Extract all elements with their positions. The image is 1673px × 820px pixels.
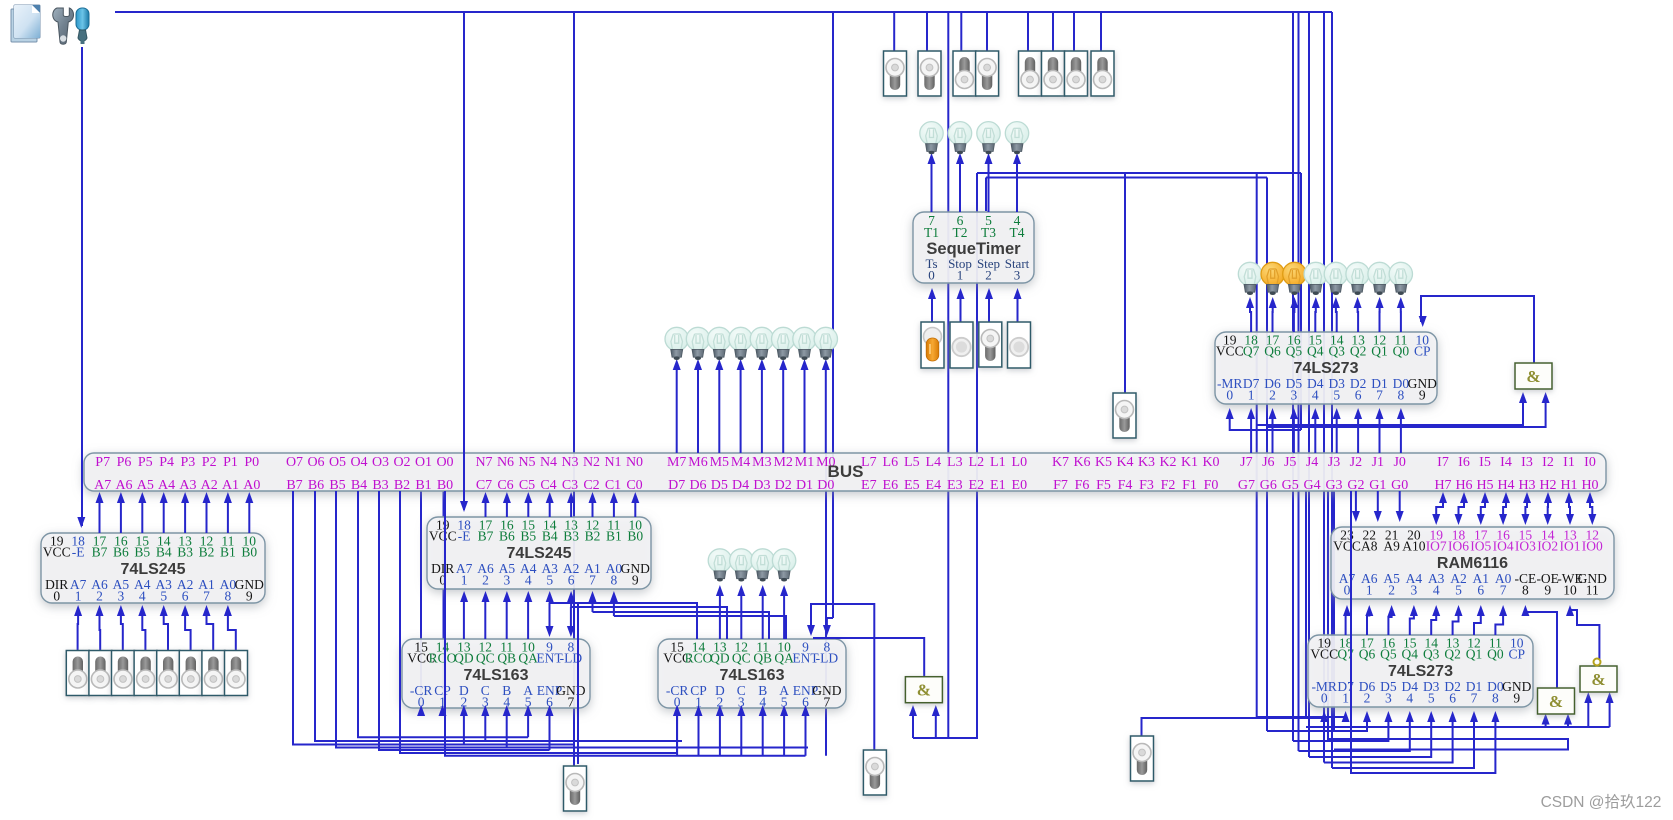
svg-text:Q2: Q2 [1444,647,1461,662]
wire: control switch to SequeTimer pin 3 [1017,295,1019,322]
wire: BUS H1 bidirectional to RAM IO1 [1569,500,1570,518]
svg-text:L6: L6 [883,455,899,470]
svg-text:B7: B7 [478,529,494,544]
bulb C2 (74LS273-1 Q6) lit [1261,262,1284,295]
wire: bottom trunk to 74LS163-2 inputs [445,491,806,756]
wire: top trunk drop to switch SW14 [1052,12,1054,51]
svg-text:RAM6116: RAM6116 [1437,555,1508,572]
svg-text:QD: QD [454,651,474,666]
svg-text:A7: A7 [94,478,111,493]
svg-text:D5: D5 [711,478,728,493]
and-gate G4 clock marker [1594,659,1601,666]
switch T-Ts (orange, on) [921,322,944,368]
svg-text:4: 4 [1406,691,1413,706]
svg-text:B1: B1 [606,529,622,544]
svg-text:O1: O1 [415,455,432,470]
svg-text:K7: K7 [1052,455,1069,470]
svg-text:1: 1 [957,268,964,283]
switch SW16 (up) [1091,51,1114,96]
chip U8 (RAM6116) [1331,527,1614,599]
wire: switch SW7 to 74LS245-1 A1 [207,612,214,650]
svg-text:1: 1 [461,573,468,588]
svg-text:0: 0 [1321,691,1328,706]
svg-text:6: 6 [568,573,575,588]
switch SW8 (data input bit 0) [225,651,248,696]
switch SW11 (up) [953,51,976,96]
svg-text:8: 8 [1522,583,1529,598]
svg-text:Q4: Q4 [1402,647,1419,662]
switch SW5 (data input bit 3) [157,651,180,696]
wire: 74LS273-2 Q3 up into RAM A3 [1431,612,1436,635]
switch SW7 (data input bit 1) [202,651,225,696]
wire: trunk into 74LS273-2 D4 [1293,718,1388,741]
wire: 74LS273-1 Q7 to bulb [1250,304,1251,332]
wire: stub up into 74LS163-2 pin 4 [762,712,764,756]
bulb A1 (SequeTimer T1) [920,122,943,155]
wire: BUS B3 down to counter input [379,491,550,750]
wire: trunk into 74LS273-2 D5 [1267,718,1367,731]
svg-text:E1: E1 [990,478,1006,493]
wire: 74LS273-1 Q5 to bulb [1293,304,1296,332]
svg-text:A6: A6 [115,478,132,493]
svg-text:8: 8 [1398,388,1405,403]
svg-text:C1: C1 [605,478,621,493]
svg-text:QB: QB [497,651,516,666]
svg-text:B6: B6 [499,529,515,544]
svg-text:L1: L1 [990,455,1006,470]
svg-text:J1: J1 [1372,455,1384,470]
svg-text:74LS163: 74LS163 [720,667,785,684]
svg-text:B2: B2 [585,529,601,544]
svg-text:Q6: Q6 [1264,344,1281,359]
svg-text:B2: B2 [394,478,410,493]
svg-text:VCC: VCC [1333,539,1361,554]
switch SW6 (data input bit 2) [179,651,202,696]
bulb C3 (74LS273-1 Q5) lit [1283,262,1306,295]
wire: SequeTimer T4 to bulb [1016,160,1018,212]
svg-text:IO7: IO7 [1426,539,1447,554]
wire: 74LS245-2 B7 to BUS C7 [485,500,487,517]
svg-text:M1: M1 [795,455,814,470]
wire: BUS G0 down and into 74LS273-2 D0 [1351,491,1495,773]
wire: switch SW3 to 74LS245-1 A5 [121,612,123,650]
svg-text:Q1: Q1 [1466,647,1483,662]
svg-text:C0: C0 [626,478,642,493]
switch SW13 (up) [1019,51,1042,96]
svg-text:B7: B7 [92,545,108,560]
bulb B1 (BUS M7) [665,327,688,360]
svg-text:0: 0 [1344,583,1351,598]
wire: long vertical bundle line 6 from top trunk (x1324) [1323,12,1325,763]
wire: switch SW2 to 74LS245-1 A6 [99,612,102,650]
wire: 74LS163-2 QB to bulb [762,592,764,639]
svg-text:5: 5 [1455,583,1462,598]
svg-text:B3: B3 [563,529,579,544]
bulb D3 (74LS163-2 QB) [751,549,774,582]
svg-text:B3: B3 [372,478,388,493]
wire: 74LS273-1 Q0 to bulb [1400,304,1402,332]
wire: data net to 74LS245-2 A2 with horizontal run [570,598,572,607]
svg-text:Q3: Q3 [1423,647,1440,662]
wire: BUS H3 bidirectional to RAM IO3 [1525,500,1527,518]
svg-text:H1: H1 [1560,478,1577,493]
wire: top trunk drop to switch SW15 [1073,12,1075,51]
wire: 74LS273-2 Q5 up into RAM A5 [1388,612,1391,635]
svg-text:Q7: Q7 [1243,344,1260,359]
wire: BUS J3 up into 74LS273-1 D3 [1336,415,1338,453]
svg-text:I1: I1 [1563,455,1575,470]
svg-text:5: 5 [546,573,553,588]
wire: net into 74LS273-1 -MR [1230,415,1301,430]
wire: and-gate G3 output to RAM -CE [1525,610,1557,688]
svg-text:Q3: Q3 [1328,344,1345,359]
wire: 74LS245-1 B6 to BUS A6 [120,500,122,533]
svg-text:3: 3 [504,573,511,588]
svg-text:D3: D3 [753,478,770,493]
svg-text:N4: N4 [540,455,557,470]
svg-text:M5: M5 [710,455,729,470]
wire: 74LS273-1 Q6 to bulb [1272,304,1274,332]
wire: switch SW4 to 74LS245-1 A4 [142,612,145,650]
svg-text:O6: O6 [307,455,324,470]
svg-text:M2: M2 [773,455,792,470]
wire: 74LS163-1 QD to 74LS245-2 A7 [463,598,465,639]
svg-text:C4: C4 [540,478,556,493]
switch P1 (probe) [1113,393,1136,438]
wire: vertical net through BUS down to 74LS163-2 -LD (x833) [832,12,834,618]
wire: BUS H7 bidirectional to RAM IO7 [1436,500,1443,518]
wire: 74LS163-2 QC to bulb [740,592,742,639]
bulb B7 (BUS M1) [793,327,816,360]
svg-text:8: 8 [225,589,232,604]
svg-text:O0: O0 [436,455,453,470]
svg-text:Q6: Q6 [1359,647,1376,662]
svg-text:9: 9 [246,589,253,604]
svg-text:2: 2 [482,573,489,588]
svg-text:9: 9 [1419,388,1426,403]
svg-text:K0: K0 [1202,455,1219,470]
svg-text:A5: A5 [137,478,154,493]
svg-text:8: 8 [1492,691,1499,706]
wire: 74LS273-1 Q4 to bulb [1314,304,1317,332]
wire: and-gate G2 output to the left [813,638,924,677]
svg-text:J7: J7 [1240,455,1252,470]
wire: control switch to SequeTimer pin 1 [960,295,962,322]
svg-text:J0: J0 [1393,455,1405,470]
svg-text:4: 4 [525,573,532,588]
switch P2 (clock source) [564,766,587,811]
wire: top trunk drop to switch SW9 [893,12,895,51]
svg-text:B4: B4 [156,545,172,560]
wire: BUS H6 bidirectional to RAM IO6 [1459,500,1465,518]
svg-text:E2: E2 [969,478,985,493]
svg-text:Q0: Q0 [1393,344,1410,359]
svg-text:I7: I7 [1437,455,1449,470]
wire: control switch to SequeTimer pin 0 [931,295,933,322]
svg-text:E6: E6 [883,478,899,493]
svg-text:D1: D1 [796,478,813,493]
bulb A2 (SequeTimer T2) [948,122,971,155]
svg-text:K5: K5 [1095,455,1112,470]
svg-text:C5: C5 [519,478,535,493]
svg-text:C7: C7 [476,478,492,493]
bulb B4 (BUS M4) [729,327,752,360]
svg-text:P1: P1 [223,455,238,470]
switch T-Stop (button) [950,322,973,368]
svg-text:L2: L2 [969,455,985,470]
svg-text:0: 0 [928,268,935,283]
svg-text:K4: K4 [1116,455,1133,470]
svg-text:G1: G1 [1369,478,1386,493]
svg-text:N5: N5 [518,455,535,470]
wire: BUS G down into RAM A9 [1377,491,1379,517]
wire: BUS M0 to indicator bulb [825,366,827,453]
svg-text:7: 7 [203,589,210,604]
and-gate G3 [1538,688,1575,714]
svg-text:I0: I0 [1584,455,1596,470]
wire: 74LS245-1 B7 to BUS A7 [99,500,101,533]
svg-text:P7: P7 [95,455,110,470]
bulb B6 (BUS M2) [772,327,795,360]
svg-text:9: 9 [1544,583,1551,598]
switch T-Start (button) [1008,322,1031,368]
svg-text:H6: H6 [1455,478,1472,493]
wire: jog into 74LS163-2 -LD [827,618,833,628]
svg-text:I6: I6 [1458,455,1470,470]
svg-text:1: 1 [1248,388,1255,403]
wire: 74LS245-1 B4 to BUS A4 [163,500,165,533]
wire: SequeTimer T3 to bulb [988,160,990,212]
bulb C6 (74LS273-1 Q2) [1346,262,1369,295]
svg-text:N3: N3 [561,455,578,470]
wire: BUS M2 to indicator bulb [782,366,784,453]
wire: 74LS245-2 B4 to BUS C4 [549,500,551,517]
svg-text:D6: D6 [689,478,706,493]
svg-text:I3: I3 [1521,455,1533,470]
svg-text:3: 3 [118,589,125,604]
svg-text:2: 2 [1388,583,1395,598]
svg-text:CP: CP [1414,344,1431,359]
svg-text:QD: QD [710,651,730,666]
svg-text:-E: -E [72,545,85,560]
svg-text:4: 4 [1433,583,1440,598]
svg-text:F2: F2 [1161,478,1176,493]
wire: switch SW5 to 74LS245-1 A3 [164,612,168,650]
wire: BUS M7 to indicator bulb [676,366,678,453]
svg-text:K1: K1 [1181,455,1198,470]
svg-text:QC: QC [476,651,495,666]
wire: BUS B4 down to counter input [358,491,528,737]
switch SW1 (data input bit 7) [66,651,89,696]
wire: long vertical clock net through SequeTimer and BUS (x948) [947,12,949,738]
svg-text:7: 7 [568,695,575,710]
svg-text:A4: A4 [158,478,175,493]
svg-text:1: 1 [75,589,82,604]
svg-text:I2: I2 [1542,455,1554,470]
wire: probe P3 up and left into 74LS163-2 ENT [811,604,874,750]
svg-text:74LS273: 74LS273 [1294,360,1359,377]
wire: 74LS273-2 Q6 up into RAM A6 [1367,612,1369,635]
svg-text:T3: T3 [981,225,996,240]
wire: second trunk (right mid) [977,172,1301,174]
wire: top trunk drop to switch SW10 [926,12,928,51]
svg-text:A10: A10 [1402,539,1425,554]
svg-text:VCC: VCC [1310,647,1338,662]
chip U3 (74LS163) [402,639,590,710]
svg-text:B5: B5 [134,545,150,560]
svg-text:9: 9 [632,573,639,588]
svg-text:J2: J2 [1350,455,1362,470]
svg-text:D7: D7 [668,478,685,493]
svg-text:6: 6 [182,589,189,604]
wire: BUS H0 bidirectional to RAM IO0 [1590,500,1592,518]
svg-text:3: 3 [1385,691,1392,706]
svg-text:L4: L4 [926,455,942,470]
svg-text:O3: O3 [372,455,389,470]
svg-text:G0: G0 [1391,478,1408,493]
svg-text:P6: P6 [117,455,132,470]
wire: BUS J6 up into 74LS273-1 D6 [1272,415,1274,453]
svg-text:O2: O2 [393,455,410,470]
switch SW2 (data input bit 6) [89,651,112,696]
bulb B2 (BUS M6) [686,327,709,360]
wire: 74LS273-1 Q2 to bulb [1357,304,1360,332]
svg-text:J6: J6 [1262,455,1274,470]
svg-text:IO4: IO4 [1493,539,1514,554]
switch P3 [863,750,886,795]
icon: tools toolbar button (wrench + screwdriver) [53,8,89,44]
switch SW9 (down) [884,51,907,96]
svg-text:7: 7 [1471,691,1478,706]
svg-text:-E: -E [458,529,471,544]
svg-text:C2: C2 [583,478,599,493]
wire: long vertical bundle line 1 through 74LS273-1 and BUS (x1256.7) [1256,173,1258,717]
wire: stub up into 74LS163-2 pin 6 [805,712,807,756]
svg-text:T2: T2 [953,225,968,240]
svg-text:2: 2 [1364,691,1371,706]
svg-text:T1: T1 [924,225,939,240]
svg-text:-LD: -LD [816,651,839,666]
svg-text:10: 10 [1563,583,1577,598]
svg-text:F0: F0 [1204,478,1219,493]
svg-text:N6: N6 [497,455,514,470]
wire: vertical below BUS G down through 74LS273-2 (x1334) [1333,491,1335,731]
wire: BUS H2 bidirectional to RAM IO2 [1547,500,1549,518]
svg-text:6: 6 [1477,583,1484,598]
wire: 74LS273-2 Q0 up into RAM A0 [1495,612,1503,635]
bulb C1 (74LS273-1 Q7) [1238,262,1261,295]
wire: long vertical bundle line 5 from top trunk (x1309) [1308,12,1310,757]
wire: 74LS245-2 B5 to BUS C5 [527,500,529,517]
svg-text:A3: A3 [179,478,196,493]
svg-text:D2: D2 [775,478,792,493]
and-gate G4 [1580,666,1617,692]
icon: new-document toolbar button [11,5,40,42]
wire: BUS G down into RAM A8 [1355,491,1357,517]
switch SW10 (down) [918,51,941,96]
wire: 74LS245-2 B0 to BUS C0 [634,500,636,517]
svg-text:IO3: IO3 [1515,539,1536,554]
svg-text:2: 2 [985,268,992,283]
switch SW15 (up) [1065,51,1088,96]
svg-text:G2: G2 [1347,478,1364,493]
svg-text:F6: F6 [1075,478,1090,493]
bulb D2 (74LS163-2 QC) [730,549,753,582]
svg-text:3: 3 [1291,388,1298,403]
svg-text:H7: H7 [1434,478,1451,493]
wire: arrow into 74LS163-1 CP [439,705,447,716]
svg-text:M3: M3 [752,455,771,470]
svg-text:G7: G7 [1238,478,1255,493]
svg-text:IO5: IO5 [1470,539,1491,554]
svg-text:N2: N2 [583,455,600,470]
svg-text:H2: H2 [1539,478,1556,493]
svg-text:CSDN @拾玖122: CSDN @拾玖122 [1541,793,1662,811]
svg-text:0: 0 [53,589,60,604]
svg-text:O7: O7 [286,455,303,470]
switch SW12 (down) [976,51,999,96]
svg-text:A1: A1 [222,478,239,493]
wire: 74LS245-1 B5 to BUS A5 [141,500,143,533]
svg-text:P5: P5 [138,455,153,470]
svg-text:C6: C6 [497,478,513,493]
svg-text:N0: N0 [626,455,643,470]
svg-text:L3: L3 [947,455,963,470]
svg-text:5: 5 [160,589,167,604]
svg-text:Q1: Q1 [1371,344,1388,359]
svg-text:B4: B4 [351,478,367,493]
wire: BUS G down into RAM A10 [1399,491,1401,517]
wire: 74LS273-2 Q2 up into RAM A2 [1453,612,1459,635]
svg-text:L5: L5 [904,455,920,470]
svg-text:F7: F7 [1053,478,1068,493]
svg-text:E0: E0 [1012,478,1028,493]
wire: second clock lead into switch P2 [577,604,579,764]
svg-text:6: 6 [1449,691,1456,706]
svg-text:O5: O5 [329,455,346,470]
svg-text:4: 4 [1312,388,1319,403]
svg-text:P3: P3 [181,455,196,470]
svg-text:QA: QA [518,651,538,666]
svg-text:O4: O4 [350,455,367,470]
svg-text:F4: F4 [1118,478,1133,493]
svg-text:K2: K2 [1159,455,1176,470]
svg-text:RCO: RCO [429,651,457,666]
bulb B5 (BUS M3) [750,327,773,360]
wire: probe P1 net to second trunk [1124,173,1126,393]
svg-text:74LS163: 74LS163 [464,667,529,684]
svg-text:P4: P4 [159,455,174,470]
wire: BUS B2 down to counter input [400,491,677,753]
switch T-Step (momentary) [979,322,1002,367]
wire: vertical net B1 from BUS through 74LS163-1 to pin -CR [420,491,422,712]
svg-text:F5: F5 [1096,478,1111,493]
svg-text:0: 0 [1226,388,1233,403]
svg-text:1: 1 [1342,691,1349,706]
wire: trunk into 74LS273-2 D0 [1332,718,1474,768]
bulb D1 (74LS163-2 QD) [708,549,731,582]
svg-text:5: 5 [1333,388,1340,403]
wire: long vertical bundle line 3 from top trunk (x1293) [1292,12,1294,741]
switch SW3 (data input bit 5) [112,651,135,696]
bulb C4 (74LS273-1 Q4) [1304,262,1327,295]
wire: SequeTimer T1 to bulb [931,160,933,212]
svg-text:G5: G5 [1282,478,1299,493]
svg-text:VCC: VCC [429,529,457,544]
wire: 74LS245-2 B1 to BUS C1 [613,500,615,517]
wire: BUS J1 up into 74LS273-1 D1 [1379,415,1381,453]
svg-text:B7: B7 [286,478,302,493]
